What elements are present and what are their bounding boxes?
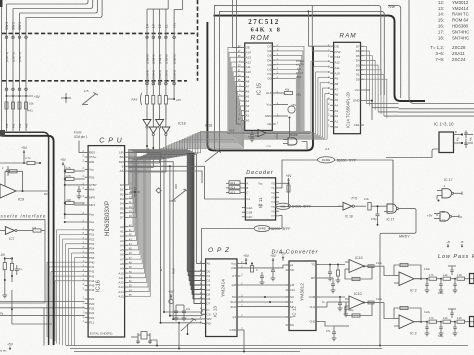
- label RAME oval: [318, 157, 335, 163]
- svg-text:2SA11: 2SA11: [452, 51, 465, 56]
- wire double lines right: [399, 108, 474, 110]
- svg-text:A4: A4: [335, 103, 339, 107]
- svg-text:OE: OE: [335, 44, 339, 48]
- pi cap above b: [451, 309, 453, 313]
- svg-text:A2: A2: [246, 109, 250, 113]
- resistor 42k A15: [276, 92, 284, 94]
- CPU right pins D0-D7: [125, 184, 129, 186]
- +5V at Vcc pin: [276, 104, 288, 106]
- svg-text:P61: P61: [11, 123, 15, 128]
- svg-text:P51: P51: [89, 233, 95, 237]
- decoder input boxed labels: [229, 181, 240, 185]
- bus thick box left-bottom: [207, 22, 313, 150]
- svg-text:2.2k: 2.2k: [443, 274, 448, 277]
- svg-text:P21: P21: [89, 297, 95, 301]
- svg-text:D2: D2: [120, 192, 124, 196]
- svg-text:CE1: CE1: [354, 123, 360, 127]
- svg-text:D1: D1: [356, 73, 360, 77]
- svg-text:A0: A0: [335, 125, 339, 129]
- buffer IC7: [0, 230, 5, 232]
- svg-text:2SC28: 2SC28: [452, 45, 466, 50]
- svg-text:Low Pass Filter: Low Pass Filter: [438, 254, 474, 260]
- op-amp IC10 a output: [364, 265, 376, 267]
- dashed boundary vertical: [197, 0, 199, 81]
- IC7 output: [17, 230, 33, 232]
- svg-text:CH2: CH2: [309, 320, 315, 324]
- svg-text:+5V: +5V: [296, 93, 301, 97]
- svg-text:IC18: IC18: [205, 124, 212, 128]
- svg-text:330p: 330p: [438, 335, 444, 338]
- feedback a: [345, 266, 372, 279]
- svg-text:D4: D4: [120, 202, 124, 206]
- svg-text:IC10: IC10: [355, 256, 363, 260]
- svg-text:A11: A11: [119, 276, 124, 280]
- bus A0-A15 CPU to ROM staircase: [128, 120, 245, 226]
- svg-text:GND: GND: [265, 114, 273, 118]
- svg-text:E: E: [159, 269, 163, 271]
- svg-text:CS2: CS2: [335, 55, 341, 59]
- svg-text:A3: A3: [246, 104, 250, 108]
- wire +5V rail: [7, 95, 34, 97]
- svg-text:$2000~3FFF: $2000~3FFF: [271, 227, 291, 231]
- svg-text:IOE: IOE: [266, 144, 271, 148]
- cap 560p: [345, 302, 347, 308]
- cap 470p: [377, 206, 379, 214]
- CPU left pins P2x bottom: [85, 298, 89, 300]
- ROM left pins: [241, 47, 245, 49]
- svg-text:(CN9-8): (CN9-8): [164, 54, 168, 64]
- wire crystal to bus: [131, 336, 138, 338]
- svg-text:SW 1: SW 1: [18, 22, 22, 30]
- svg-text:2.2k: 2.2k: [364, 198, 369, 201]
- svg-text:P23: P23: [89, 307, 95, 311]
- svg-text:Y0: Y0: [271, 182, 275, 186]
- wire CH1 to opamp: [320, 306, 328, 308]
- wire E long: [220, 11, 385, 150]
- regulator box: [439, 132, 454, 153]
- svg-text:D1: D1: [268, 72, 272, 76]
- edge box b: [470, 317, 474, 327]
- svg-text:+5V: +5V: [286, 174, 293, 178]
- svg-text:D5: D5: [356, 54, 360, 58]
- svg-text:A2: A2: [120, 234, 124, 238]
- svg-text:A13: A13: [246, 55, 252, 59]
- decoder left pins: [242, 182, 246, 184]
- svg-text:XTAL: XTAL: [89, 155, 97, 159]
- svg-text:R/W: R/W: [335, 50, 341, 54]
- svg-text:A10: A10: [118, 271, 124, 275]
- svg-text:P50: P50: [89, 228, 95, 232]
- svg-text:4.7k: 4.7k: [84, 90, 89, 93]
- capacitor C2 at ROM bottom: [251, 131, 253, 135]
- svg-text:Vcc: Vcc: [355, 88, 361, 92]
- svg-text:A10: A10: [335, 71, 341, 75]
- svg-text:(CN8-6): (CN8-6): [152, 70, 156, 80]
- connector pins on dashed line 1: [5, 36, 8, 39]
- dashed boundary horizontal 2: [2, 80, 187, 82]
- svg-text:(CN7-5): (CN7-5): [18, 52, 22, 62]
- svg-text:(CN8-5): (CN8-5): [158, 70, 162, 80]
- svg-text:Vss: Vss: [89, 220, 95, 224]
- svg-text:P56: P56: [89, 256, 95, 260]
- svg-text:(CN9-9): (CN9-9): [145, 54, 149, 64]
- svg-text:P62: P62: [18, 123, 22, 128]
- svg-text:(CN7-2): (CN7-2): [11, 52, 15, 62]
- op-amp IC9: [0, 184, 16, 198]
- svg-text:IC7: IC7: [9, 237, 14, 241]
- filter RC b: [426, 321, 428, 323]
- svg-text:WR: WR: [207, 317, 213, 321]
- svg-text:CLK: CLK: [290, 288, 296, 292]
- IC13 OPZ box: [206, 259, 237, 337]
- wire Vss rail: [65, 213, 85, 215]
- net EPRE: [268, 216, 282, 229]
- svg-text:A12: A12: [246, 60, 252, 64]
- svg-text:Y7: Y7: [271, 214, 275, 218]
- svg-text:P55: P55: [89, 175, 95, 179]
- svg-text:P54: P54: [89, 247, 95, 251]
- resistor 4.7k 2: [66, 177, 75, 180]
- svg-text:A0: A0: [207, 262, 211, 266]
- svg-text:YM3012: YM3012: [452, 0, 469, 5]
- svg-text:SN74HC: SN74HC: [452, 35, 469, 40]
- wires into IC2 from IC10: [368, 265, 374, 268]
- wire SW verticals: [6, 4, 8, 131]
- svg-text:A10: A10: [246, 70, 252, 74]
- svg-text:A0: A0: [120, 225, 124, 229]
- svg-text:16:: 16:: [438, 24, 444, 29]
- resistor at IC9: [27, 161, 35, 164]
- ROM right pins: [272, 45, 276, 47]
- svg-text:A13: A13: [118, 285, 124, 289]
- svg-text:GND: GND: [353, 99, 361, 103]
- svg-text:CT: CT: [232, 274, 236, 278]
- connector pins L row1: [146, 36, 149, 39]
- svg-text:0.22u: 0.22u: [424, 311, 431, 314]
- svg-text:P60: P60: [5, 123, 9, 128]
- wire RAM OE RW from top: [308, 11, 310, 46]
- NAND gate 1: [442, 189, 452, 198]
- svg-text:+5V: +5V: [7, 343, 14, 347]
- svg-text:IC 13: IC 13: [213, 306, 218, 317]
- svg-text:+5V: +5V: [173, 23, 177, 28]
- svg-text:CE: CE: [267, 122, 271, 126]
- wire A15 right: [267, 132, 310, 134]
- reg arrows: [468, 134, 473, 136]
- svg-text:COM: COM: [309, 295, 316, 299]
- svg-text:YM3012: YM3012: [300, 283, 306, 301]
- svg-text:φM: φM: [232, 283, 237, 287]
- svg-text:D7: D7: [268, 45, 272, 49]
- svg-text:A3: A3: [120, 239, 124, 243]
- svg-text:(CN8-6): (CN8-6): [173, 70, 177, 80]
- svg-text:A15: A15: [266, 91, 272, 95]
- svg-text:P52: P52: [89, 237, 95, 241]
- svg-text:SH2: SH2: [230, 305, 236, 309]
- svg-text:A2: A2: [335, 114, 339, 118]
- svg-text:A6: A6: [120, 253, 124, 257]
- RAM address verticals: [310, 61, 312, 131]
- svg-text:A9: A9: [120, 267, 124, 271]
- OPZ GND down: [241, 330, 245, 352]
- op-amp IC10 a: [349, 260, 364, 273]
- RAM left pins: [330, 45, 334, 47]
- svg-text:Y1: Y1: [271, 186, 275, 190]
- trimmer mid right: [205, 151, 219, 162]
- svg-text:BUFF: BUFF: [290, 133, 298, 137]
- wire stby: [65, 184, 85, 186]
- net EPRE down to OPZ CS: [202, 229, 255, 315]
- svg-text:Vcc: Vcc: [258, 182, 263, 186]
- svg-text:7~9:: 7~9:: [435, 57, 444, 62]
- svg-text:P42: P42: [89, 270, 95, 274]
- svg-text:SW 2: SW 2: [11, 22, 15, 30]
- IC15 ROM box: [245, 43, 273, 130]
- svg-text:G2C: G2C: [246, 215, 253, 219]
- svg-text:R/W: R/W: [389, 5, 396, 9]
- svg-text:CS: CS: [207, 313, 211, 317]
- svg-text:A11: A11: [246, 65, 251, 69]
- op-amp IC10 b: [349, 296, 364, 309]
- svg-text:SO: SO: [232, 295, 237, 299]
- wires OPZ to YM3012: [241, 284, 290, 286]
- svg-text:15:: 15:: [438, 18, 444, 23]
- svg-text:D2: D2: [207, 279, 211, 283]
- svg-text:A9: A9: [246, 75, 250, 79]
- decoder right pins: [276, 182, 280, 184]
- wire bundle CPU P5x to bottom bus: [57, 229, 85, 231]
- svg-text:A7: A7: [335, 87, 339, 91]
- svg-text:P55: P55: [89, 251, 95, 255]
- svg-text:φ1: φ1: [290, 263, 294, 267]
- svg-text:MRDY: MRDY: [399, 235, 410, 239]
- svg-text:MP1: MP1: [89, 203, 96, 207]
- trimmer top middle: [175, 195, 177, 197]
- resistor 4.7k 1: [64, 165, 66, 219]
- svg-text:D3: D3: [268, 63, 272, 67]
- svg-text:2.2k: 2.2k: [443, 317, 448, 320]
- wire right edge corner: [409, 0, 474, 104]
- svg-text:HD6380: HD6380: [452, 24, 469, 29]
- svg-text:L2: L2: [158, 24, 162, 28]
- svg-text:IC9: IC9: [18, 197, 25, 202]
- svg-text:2.2k: 2.2k: [457, 317, 462, 320]
- cross-dot symbol left of pot: [61, 97, 71, 99]
- svg-text:T= 1,2:: T= 1,2:: [430, 45, 444, 50]
- svg-text:12:: 12:: [438, 0, 444, 5]
- bottom bus horizontals: [66, 345, 468, 347]
- svg-text:A14: A14: [246, 51, 252, 55]
- svg-text:D4: D4: [356, 59, 360, 63]
- CPU right pins control: [125, 151, 129, 153]
- svg-text:D2: D2: [356, 68, 360, 72]
- svg-text:BA: BA: [120, 155, 124, 159]
- svg-text:4.7u: 4.7u: [25, 156, 31, 160]
- svg-text:13:: 13:: [438, 6, 444, 11]
- svg-text:φ1: φ1: [232, 315, 236, 319]
- svg-text:A4: A4: [246, 99, 250, 103]
- svg-text:0.22u: 0.22u: [376, 298, 383, 301]
- svg-text:R21: R21: [44, 192, 50, 196]
- bus D0-D7 CPU via band to OPZ feed bundle: [128, 150, 187, 185]
- svg-text:D7: D7: [120, 216, 124, 220]
- svg-text:D5: D5: [120, 206, 124, 210]
- svg-text:Y3: Y3: [271, 195, 275, 199]
- svg-text:P40: P40: [89, 260, 95, 264]
- svg-text:WR: WR: [89, 160, 95, 164]
- svg-text:Vss: Vss: [89, 213, 95, 217]
- svg-text:45u: 45u: [456, 136, 459, 141]
- svg-text:10k: 10k: [29, 102, 34, 106]
- wire MP1: [74, 204, 85, 206]
- svg-text:14:: 14:: [438, 12, 444, 17]
- svg-text:Y5: Y5: [271, 205, 275, 209]
- cassette resistors: [4, 257, 6, 263]
- svg-text:+5V: +5V: [168, 290, 175, 294]
- svg-text:D7: D7: [207, 302, 211, 306]
- left edge tiny marks: [0, 130, 5, 137]
- svg-text:ICM pin 1: ICM pin 1: [74, 135, 88, 139]
- svg-text:A: A: [246, 182, 248, 186]
- RC network MP: [320, 277, 334, 279]
- bus thick box top: [214, 16, 426, 101]
- svg-text:IC10: IC10: [354, 292, 362, 296]
- svg-text:RAME: RAME: [322, 158, 330, 162]
- edge box a: [470, 274, 474, 284]
- svg-text:220: 220: [67, 198, 72, 202]
- bus thick rail 1: [2, 132, 49, 345]
- svg-text:0.22u: 0.22u: [424, 268, 431, 271]
- buffer IC18 inverters: [146, 104, 148, 120]
- svg-text:A15: A15: [230, 190, 235, 194]
- svg-text:D2: D2: [268, 68, 272, 72]
- svg-text:17:: 17:: [438, 29, 444, 34]
- svg-text:SW 3: SW 3: [5, 22, 9, 30]
- svg-text:ROM 64: ROM 64: [452, 18, 469, 23]
- resistor 220: [66, 201, 75, 204]
- svg-text:Y4: Y4: [271, 200, 275, 204]
- svg-text:MP0: MP0: [89, 196, 96, 200]
- junction dots OPZ wires: [264, 296, 266, 298]
- svg-text:Vcc: Vcc: [266, 103, 272, 107]
- cassette box: [0, 220, 45, 303]
- reg caps: [465, 131, 467, 139]
- svg-text:GND: GND: [229, 328, 237, 332]
- svg-text:Vdd: Vdd: [231, 266, 237, 270]
- RAM Vcc GND stubs: [364, 89, 370, 91]
- bus ROM data staircase: [276, 46, 304, 131]
- svg-text:D6: D6: [207, 297, 211, 301]
- IC11 decoder box: [245, 178, 275, 220]
- decoupling at OPZ right: [272, 261, 274, 270]
- svg-text:YM2414: YM2414: [452, 6, 469, 11]
- svg-text:A9: A9: [335, 77, 339, 81]
- transistor T7: [288, 106, 295, 113]
- svg-text:OE: OE: [246, 46, 250, 50]
- svg-text:D6: D6: [268, 49, 272, 53]
- svg-text:R/W: R/W: [172, 268, 176, 274]
- svg-text:EPRE: EPRE: [258, 227, 266, 231]
- net MRDY loop: [380, 209, 416, 346]
- wire left-edge vertical: [1, 0, 3, 133]
- svg-text:EXTAL GND(P2): EXTAL GND(P2): [90, 332, 112, 336]
- net IOE wire: [279, 205, 343, 207]
- op-amp IC2 b: [399, 315, 414, 329]
- svg-text:IC 15: IC 15: [257, 83, 263, 95]
- svg-text:28pin: 28pin: [296, 76, 303, 79]
- connector pins row 2: [5, 88, 8, 91]
- svg-text:IC 1~3, 10: IC 1~3, 10: [434, 122, 454, 127]
- svg-text:Y2: Y2: [271, 191, 275, 195]
- transistor mark below +5V: [169, 299, 173, 303]
- svg-text:assette Interface: assette Interface: [0, 214, 46, 219]
- RAM data wires descend right: [364, 46, 367, 103]
- dashed boundary horizontal 1: [2, 32, 198, 34]
- CPU left pins P5x P4x: [85, 229, 89, 231]
- wire input from left: [0, 162, 27, 164]
- RC network COM: [320, 296, 346, 298]
- svg-text:Vcc: Vcc: [231, 262, 237, 266]
- wire L-bundle comb: [147, 8, 168, 10]
- bracket RA3: [141, 93, 142, 105]
- connector pins L row2: [146, 82, 149, 85]
- RC network top: [320, 264, 346, 266]
- RAM right pins: [361, 45, 365, 47]
- svg-text:IOE: IOE: [281, 205, 286, 209]
- wire CH2 down: [320, 322, 335, 327]
- svg-text:A11: A11: [335, 66, 340, 70]
- svg-text:A1: A1: [120, 230, 124, 234]
- svg-text:-5V: -5V: [0, 253, 6, 257]
- svg-text:SD: SD: [290, 268, 294, 272]
- svg-text:IC 17: IC 17: [444, 178, 453, 182]
- svg-text:(CN8-9): (CN8-9): [145, 70, 149, 80]
- small diamond: [156, 188, 161, 193]
- svg-text:A1: A1: [335, 120, 339, 124]
- scan artifact top-left: [0, 0, 3, 7]
- svg-text:4.7k: 4.7k: [66, 166, 72, 170]
- svg-text:IC: IC: [290, 315, 293, 319]
- svg-text:B: B: [246, 186, 248, 190]
- svg-text:2.2k: 2.2k: [457, 274, 462, 277]
- svg-text:D3: D3: [356, 63, 360, 67]
- svg-text:D0: D0: [268, 77, 272, 81]
- wire E to decoder: [128, 166, 242, 199]
- wire AS down: [128, 171, 202, 183]
- svg-text:G2B: G2B: [246, 210, 252, 214]
- svg-text:RA1: RA1: [27, 109, 33, 113]
- svg-text:AS: AS: [120, 169, 124, 173]
- svg-text:+B: +B: [446, 240, 450, 244]
- wire RA3 common +5V: [168, 98, 175, 100]
- svg-text:A14: A14: [118, 290, 124, 294]
- svg-text:470p: 470p: [371, 218, 377, 221]
- svg-text:-B: -B: [461, 240, 464, 244]
- wire A0 to OPZ: [148, 148, 205, 263]
- svg-text:IC 18: IC 18: [345, 215, 353, 219]
- net RAME: [279, 160, 317, 188]
- svg-text:YM2414: YM2414: [221, 279, 227, 297]
- IC9 output: [16, 190, 49, 192]
- svg-text:A6: A6: [246, 89, 250, 93]
- trimmer bottom: [181, 319, 194, 331]
- wire P2x to left edge: [0, 301, 85, 303]
- svg-text:P22: P22: [89, 316, 95, 320]
- svg-text:A12: A12: [335, 61, 341, 65]
- svg-text:IC16: IC16: [96, 280, 102, 292]
- svg-text:Trm: Trm: [297, 68, 301, 71]
- svg-text:A8: A8: [335, 82, 339, 86]
